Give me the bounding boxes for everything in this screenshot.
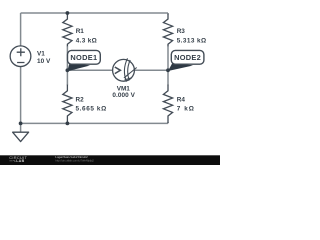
resistor R1 (63, 14, 72, 47)
svg-text:0.000 V: 0.000 V (112, 92, 135, 99)
node NODE2 flag (168, 50, 204, 71)
resistor R4 (163, 85, 172, 123)
junction dot bottom R2 (66, 122, 70, 126)
svg-text:R3: R3 (177, 28, 186, 35)
wire R1-R2 column (66, 13, 68, 123)
junction dot ground (19, 122, 23, 126)
wire right rail (167, 13, 169, 123)
node NODE1 flag (67, 50, 100, 71)
svg-text:10 V: 10 V (37, 58, 51, 65)
ground (13, 123, 29, 141)
svg-text:5.313 kΩ: 5.313 kΩ (177, 38, 206, 45)
svg-text:LAB: LAB (16, 159, 24, 163)
svg-text:NODE2: NODE2 (174, 53, 201, 62)
wire middle (NODE1 to NODE2 through voltmeter) (67, 69, 168, 71)
svg-text:R2: R2 (76, 97, 85, 104)
junction dot NODE1 (66, 68, 70, 72)
footer watermark bar (0, 155, 220, 165)
svg-text:http://circuitlab.com/c/7tkk48: http://circuitlab.com/c/7tkk48pjkj2 (55, 159, 94, 163)
svg-text:R1: R1 (76, 28, 85, 35)
wire left rail (20, 13, 22, 123)
svg-text:4.3 kΩ: 4.3 kΩ (76, 38, 97, 45)
wire bottom rail (21, 122, 168, 124)
voltmeter VM1 (113, 58, 137, 81)
resistor R3 (163, 14, 172, 47)
footer CircuitLab logo (9, 155, 27, 163)
svg-text:NODE1: NODE1 (70, 53, 97, 62)
svg-text:5.665 kΩ: 5.665 kΩ (76, 106, 107, 113)
junction dot top (66, 11, 70, 15)
wire top rail (21, 12, 168, 14)
junction dot NODE2 (166, 68, 170, 72)
voltage source V1 (10, 46, 31, 67)
svg-text:R4: R4 (177, 97, 186, 104)
resistor R2 (63, 85, 72, 123)
svg-text:V1: V1 (37, 51, 45, 58)
svg-text:7 kΩ: 7 kΩ (177, 106, 194, 113)
